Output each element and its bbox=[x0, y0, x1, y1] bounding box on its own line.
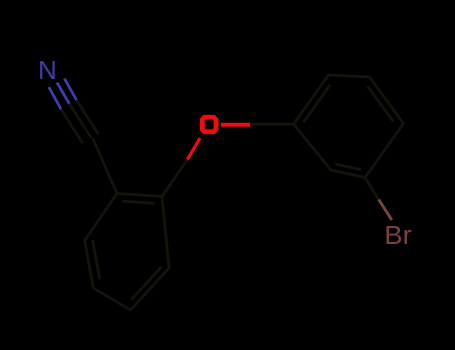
carbon skeleton (very dark olive lines) bbox=[61, 75, 404, 310]
bond C-Br (maroon half near Br) bbox=[379, 199, 392, 220]
left ring aromatic inner lines bbox=[123, 201, 156, 203]
svg-text:N: N bbox=[38, 55, 57, 85]
bond C1 to ring (benzonitrile ipso carbon) bbox=[93, 138, 118, 194]
bond O-C right dark half (to bromophenyl ring) bbox=[249, 123, 293, 126]
right ring aromatic inner lines bbox=[304, 85, 331, 122]
bond C-Br dark half (carbon side) bbox=[365, 178, 379, 200]
bond O-C aryl left (red half toward benzonitrile ring) bbox=[187, 138, 200, 160]
left benzene ring bbox=[85, 194, 169, 311]
triple bond C#N carbon-side dark halves bbox=[61, 109, 83, 143]
right benzene ring bbox=[294, 75, 404, 178]
bond O-C left dark half (to benzonitrile ring) bbox=[162, 160, 187, 197]
bond O-C aryl right (red half toward bromophenyl ring) bbox=[221, 123, 250, 127]
atom label O (ether oxygen) bbox=[202, 117, 216, 132]
triple bond C#N (blue half near N) bbox=[49, 79, 77, 110]
svg-text:Br: Br bbox=[384, 222, 412, 250]
